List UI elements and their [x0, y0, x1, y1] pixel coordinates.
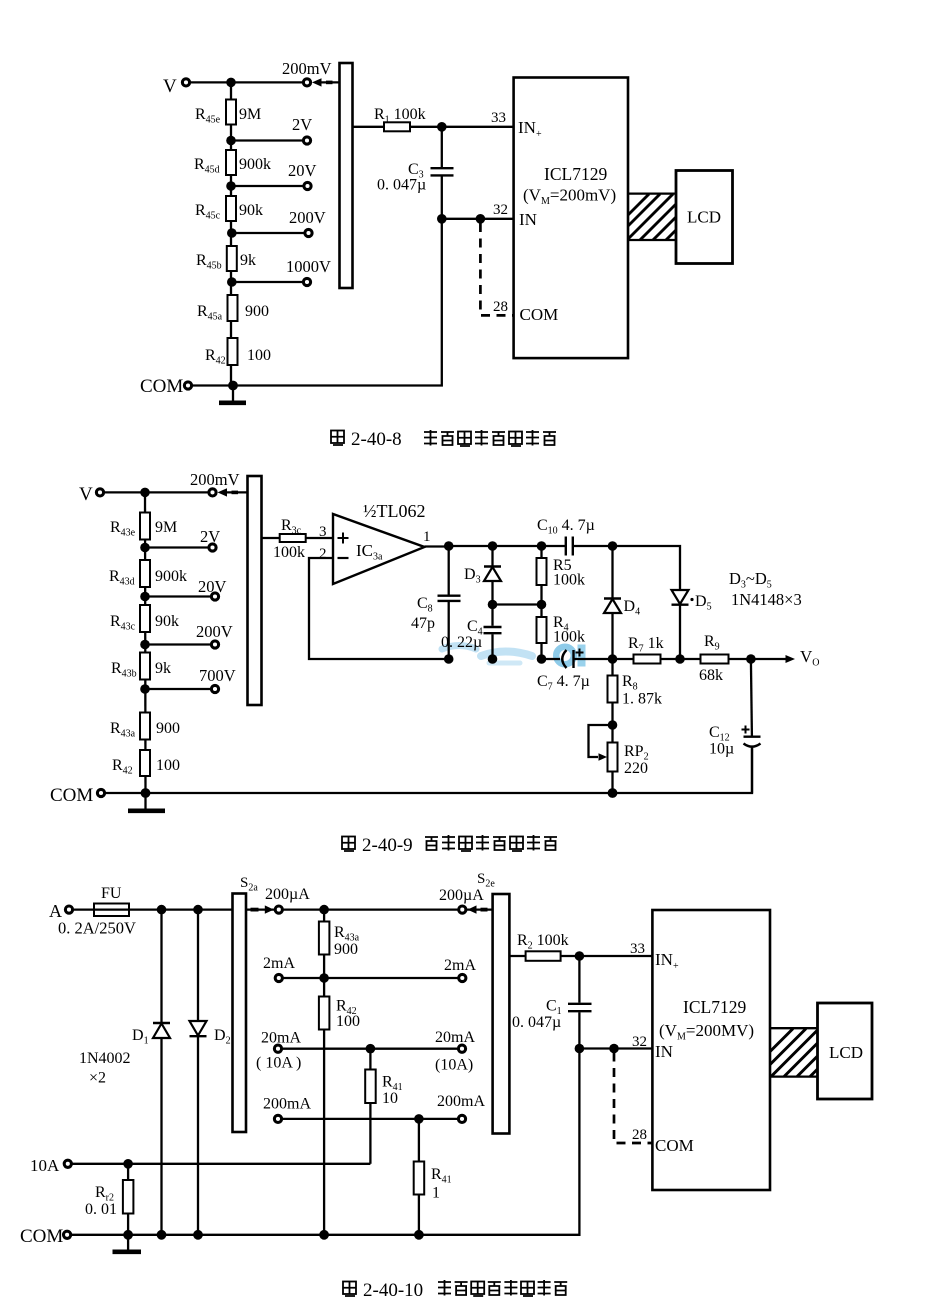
ground — [219, 386, 246, 403]
junction D1 top — [157, 905, 167, 915]
wire 200uA row — [283, 908, 457, 910]
wire 10A row — [72, 1163, 370, 1165]
terminal 2V (AC) — [200, 527, 220, 551]
svg-text:COM: COM — [520, 305, 559, 324]
resistor R5 — [537, 546, 586, 605]
svg-text:28: 28 — [493, 299, 508, 315]
terminal 200V — [289, 208, 326, 237]
terminal 700V — [199, 666, 236, 693]
svg-text:220: 220 — [624, 760, 648, 777]
terminal 2mA left — [275, 974, 282, 981]
terminal 1000V — [286, 257, 331, 286]
svg-text:ICL7129: ICL7129 — [683, 997, 746, 1017]
resistor R45a — [197, 295, 269, 323]
junction D3 top — [488, 541, 498, 551]
svg-text:D3~D5: D3~D5 — [729, 569, 772, 591]
svg-text:200mA: 200mA — [263, 1096, 311, 1113]
svg-text:200µA: 200µA — [439, 887, 484, 904]
junction R41-1 top — [414, 1114, 424, 1124]
ground (DC current) — [113, 1235, 142, 1252]
LCD display (bottom) — [818, 1003, 873, 1099]
svg-text:28: 28 — [632, 1127, 647, 1143]
switch S2e bar — [477, 871, 509, 1134]
wire switch wiper arrow to S2 — [218, 488, 248, 496]
wire 2V tap — [231, 139, 302, 141]
svg-text:20V: 20V — [288, 161, 317, 180]
svg-text:3: 3 — [319, 524, 327, 540]
op-amp IC3a 1/2 TL062 — [333, 501, 426, 584]
capacitor C7 polarized — [537, 649, 590, 693]
svg-text:10µ: 10µ — [709, 741, 734, 758]
resistor R45b — [196, 246, 256, 272]
junction Vo node — [746, 654, 756, 664]
resistor R1 — [374, 106, 426, 131]
label D3~D5 1N4148x3 — [729, 569, 802, 609]
junction R5 bottom — [537, 600, 547, 610]
junction 2mA node — [319, 973, 329, 983]
resistor R45c — [195, 196, 263, 222]
junction D2 top — [193, 905, 203, 915]
svg-text:200mV: 200mV — [190, 470, 240, 489]
svg-text:COM: COM — [20, 1226, 63, 1247]
diode D4 — [604, 546, 640, 659]
resistor R43a — [110, 713, 180, 740]
hatched LCD bus connection (IC2) — [743, 1028, 858, 1078]
wire dashed IN to COM pin — [480, 223, 513, 315]
svg-text:2mA: 2mA — [444, 957, 476, 974]
wire D3 to R5 mid node — [493, 603, 542, 605]
wire IN node — [442, 218, 514, 220]
svg-text:V: V — [79, 484, 93, 505]
junction op output — [444, 541, 454, 551]
svg-text:ICL7129: ICL7129 — [544, 164, 607, 184]
resistor R4 — [537, 605, 586, 660]
potentiometer RP2 — [589, 725, 649, 793]
junction COM D2 — [193, 1230, 203, 1240]
wire 20mA row — [283, 1048, 458, 1050]
wire COM rail (DC current) — [72, 1049, 580, 1235]
junction V node — [226, 78, 236, 88]
junction D4 bottom — [608, 654, 618, 664]
watermark blue marks — [442, 645, 586, 667]
capacitor C8 — [411, 546, 461, 659]
node 20mA left label — [256, 1030, 301, 1072]
terminal A — [49, 901, 73, 921]
wire 200V tap (AC) — [145, 643, 210, 645]
resistor R42 — [205, 338, 271, 367]
junction C4 bottom rail — [488, 654, 498, 664]
svg-text:1: 1 — [432, 1185, 440, 1202]
junction COM R41b — [414, 1230, 424, 1240]
svg-text:×2: ×2 — [89, 1070, 106, 1087]
svg-text:900k: 900k — [155, 568, 187, 585]
node Vo output arrow — [786, 647, 820, 669]
junction after C10 — [608, 541, 618, 551]
svg-text:100: 100 — [156, 757, 180, 774]
wire S2e output to IN+ (R2 row) — [509, 955, 652, 957]
junction COM node — [228, 381, 238, 391]
resistor R43e — [110, 513, 177, 540]
terminal COM (AC) — [50, 785, 105, 806]
svg-text:700V: 700V — [199, 666, 236, 685]
svg-text:100k: 100k — [553, 629, 585, 646]
svg-text:LCD: LCD — [829, 1043, 863, 1062]
wire 20V tap — [231, 185, 303, 187]
resistor R9 — [699, 633, 729, 684]
resistor Rr2 (0.01) — [85, 1164, 133, 1235]
switch S1 range selector bar — [340, 63, 353, 288]
wire A rail to S2a — [129, 908, 233, 910]
svg-text:0. 2A/250V: 0. 2A/250V — [58, 919, 136, 938]
resistor R42 (AC) — [112, 750, 180, 777]
svg-text:68k: 68k — [699, 667, 723, 684]
wire dashed IN to COM pin (IC2) — [614, 1053, 652, 1144]
wire 200V tap — [232, 232, 304, 234]
svg-text:1N4002: 1N4002 — [79, 1050, 131, 1067]
junction 2V node — [226, 136, 236, 146]
terminal 200uA right — [459, 906, 466, 913]
terminal 200mA left — [274, 1115, 281, 1122]
junction R2 C1 — [575, 951, 585, 961]
svg-text:C10 4. 7µ: C10 4. 7µ — [537, 517, 595, 537]
ground (AC) — [128, 793, 165, 811]
svg-text:9M: 9M — [155, 519, 177, 536]
svg-text:20mA: 20mA — [435, 1029, 475, 1046]
capacitor C10 — [537, 517, 595, 556]
junction 200V node (AC) — [140, 640, 150, 650]
wire rail C7 to Vo — [574, 658, 791, 660]
terminal 20mA right — [458, 1045, 465, 1052]
svg-text:9k: 9k — [240, 252, 256, 269]
svg-text:2-40-9: 2-40-9 — [362, 835, 413, 856]
terminal 200mA right — [458, 1115, 465, 1122]
svg-text:(VM=200MV): (VM=200MV) — [659, 1021, 754, 1043]
resistor R41b (1) — [414, 1119, 452, 1235]
svg-text:R2 100k: R2 100k — [517, 932, 569, 952]
junction 700V node — [140, 684, 150, 694]
svg-text:100: 100 — [247, 347, 271, 364]
junction 1000V node — [227, 277, 237, 287]
switch S2a bar — [233, 875, 259, 1132]
junction D3 bottom — [488, 600, 498, 610]
switch S2 range selector bar — [248, 476, 262, 705]
junction R4 bottom rail — [537, 654, 547, 664]
svg-text:2V: 2V — [292, 115, 312, 134]
svg-text:47p: 47p — [411, 615, 435, 632]
wire wiper arrow into S2e — [467, 905, 493, 913]
svg-text:200mV: 200mV — [282, 59, 332, 78]
LCD display — [676, 171, 733, 264]
junction C1 bottom — [575, 1044, 585, 1054]
terminal 200V (AC) — [196, 622, 233, 648]
wire 1000V tap — [232, 281, 303, 283]
resistor R45e — [195, 100, 261, 126]
junction COM Rr2 — [123, 1230, 133, 1240]
svg-text:COM: COM — [655, 1136, 694, 1155]
junction R8 RP2 — [608, 720, 618, 730]
resistor R3c — [273, 517, 306, 561]
caption figure 2-40-8 — [331, 429, 556, 450]
wire divider chain vertical (AC) — [144, 492, 147, 793]
junction V node — [140, 488, 150, 498]
svg-text:1000V: 1000V — [286, 257, 331, 276]
svg-text:100: 100 — [336, 1013, 360, 1030]
wire V to 200mV terminal — [105, 491, 208, 493]
junction R5 top — [537, 541, 547, 551]
svg-text:FU: FU — [101, 885, 122, 902]
wire switch wiper arrow to S1 — [312, 78, 340, 86]
svg-text:V: V — [163, 76, 177, 97]
svg-text:2-40-10: 2-40-10 — [363, 1280, 423, 1301]
svg-text:2: 2 — [319, 546, 327, 562]
wire S2a wiper arrow to 200uA terminal — [246, 905, 274, 913]
junction COM node (AC) — [141, 788, 151, 798]
svg-text:90k: 90k — [155, 613, 179, 630]
svg-text:1N4148×3: 1N4148×3 — [731, 590, 802, 609]
resistor R43a (900) — [319, 922, 360, 959]
svg-text:COM: COM — [50, 785, 93, 806]
junction Rr2 top — [123, 1159, 133, 1169]
svg-text:2mA: 2mA — [263, 955, 295, 972]
fuse FU 0.2A/250V — [58, 885, 136, 938]
junction C8 bottom rail — [444, 654, 454, 664]
svg-text:0. 047µ: 0. 047µ — [512, 1014, 561, 1031]
svg-text:32: 32 — [493, 202, 508, 218]
svg-text:9k: 9k — [155, 660, 171, 677]
svg-text:2-40-8: 2-40-8 — [351, 429, 402, 450]
svg-text:33: 33 — [491, 110, 506, 126]
diode D2 — [190, 910, 231, 1235]
svg-text:0. 01: 0. 01 — [85, 1201, 117, 1218]
wire COM rail (AC) — [106, 747, 752, 794]
terminal 20V — [288, 161, 317, 190]
svg-text:0. 047µ: 0. 047µ — [377, 177, 426, 194]
terminal COM — [140, 376, 192, 397]
diode D5 — [672, 590, 712, 659]
svg-text:10A: 10A — [30, 1156, 60, 1175]
terminal 20V (AC) — [198, 577, 227, 600]
junction 2V node (AC) — [140, 543, 150, 553]
junction 20V node (AC) — [140, 592, 150, 602]
resistor R41 (10) — [365, 1049, 402, 1164]
wire S1 output to IN+ — [353, 126, 514, 128]
svg-text:100k: 100k — [553, 572, 585, 589]
resistor R7 — [628, 635, 664, 664]
svg-text:COM: COM — [140, 376, 183, 397]
wire V to 200mV terminal — [191, 81, 303, 83]
svg-text:200V: 200V — [289, 208, 326, 227]
junction D5 bottom — [675, 654, 685, 664]
svg-text:10: 10 — [382, 1090, 398, 1107]
terminal 200mV — [209, 489, 216, 496]
junction 200V node — [227, 228, 237, 238]
wire 20V tap (AC) — [145, 595, 210, 597]
hatched LCD bus connection — [601, 194, 712, 242]
svg-text:9M: 9M — [239, 106, 261, 123]
terminal 2V — [292, 115, 312, 144]
svg-text:100k: 100k — [273, 544, 305, 561]
junction 20V node — [226, 181, 236, 191]
svg-text:1: 1 — [423, 529, 431, 545]
svg-text:33: 33 — [630, 941, 645, 957]
junction IN node left — [437, 214, 447, 224]
resistor R43d — [109, 560, 187, 588]
wire top rail to C10 — [449, 545, 566, 547]
junction RP2 bottom — [608, 788, 618, 798]
svg-text:900: 900 — [156, 720, 180, 737]
wire S2 output to op-amp — [262, 537, 334, 539]
resistor R43c — [110, 605, 179, 633]
resistor R8 — [608, 659, 663, 725]
wire divider chain vertical — [230, 82, 232, 385]
wire inverting feedback — [309, 558, 449, 659]
svg-text:LCD: LCD — [687, 208, 721, 227]
diode D1 — [132, 910, 170, 1235]
svg-text:R1 100k: R1 100k — [374, 106, 426, 126]
terminal 200uA left — [275, 906, 282, 913]
svg-text:½TL062: ½TL062 — [363, 501, 426, 521]
wire op-amp output — [425, 545, 449, 547]
terminal 20mA left — [274, 1045, 281, 1052]
op IC U2 ICL7129 — [652, 910, 770, 1190]
svg-text:32: 32 — [632, 1034, 647, 1050]
svg-text:900: 900 — [245, 303, 269, 320]
junction COM D1 — [157, 1230, 167, 1240]
svg-text:IN: IN — [655, 1042, 673, 1061]
wire shunt chain vertical — [323, 910, 325, 1235]
capacitor C3 — [377, 127, 454, 219]
svg-text:( 10A ): ( 10A ) — [256, 1055, 301, 1072]
terminal V (AC) — [79, 484, 104, 505]
wire COM rail — [192, 219, 442, 386]
svg-text:200V: 200V — [196, 622, 233, 641]
svg-text:900k: 900k — [239, 156, 271, 173]
svg-text:(10A): (10A) — [435, 1057, 473, 1074]
wire 700V tap — [145, 688, 210, 690]
terminal V — [163, 76, 190, 97]
diode D3 — [464, 546, 501, 605]
junction COM chain — [319, 1230, 329, 1240]
terminal 200mV — [303, 79, 310, 86]
resistor R2 — [517, 932, 569, 961]
wire IN pin row (IC2) — [579, 1047, 652, 1049]
junction IN+ node — [437, 122, 447, 132]
caption figure 2-40-10 — [343, 1280, 567, 1301]
capacitor C4 — [441, 605, 502, 660]
junction chain top — [319, 905, 329, 915]
op IC U1 ICL7129 — [514, 78, 628, 359]
resistor R43b — [111, 653, 171, 680]
terminal 2mA right — [459, 974, 466, 981]
node 20mA right label — [435, 1029, 475, 1074]
capacitor C12 polarized — [709, 659, 761, 793]
capacitor C1 — [512, 956, 592, 1049]
wire rail to C7 — [542, 658, 561, 660]
svg-text:(VM=200mV): (VM=200mV) — [523, 186, 616, 208]
wire 2mA row — [283, 977, 457, 979]
junction IN node dashed branch — [476, 214, 486, 224]
terminal COM (DC current) — [20, 1226, 71, 1247]
wire 200mA row — [283, 1118, 458, 1120]
svg-text:C7 4. 7µ: C7 4. 7µ — [537, 673, 590, 693]
svg-text:90k: 90k — [239, 202, 263, 219]
svg-text:200µA: 200µA — [265, 886, 310, 903]
terminal 10A — [30, 1156, 71, 1175]
junction R41-10 top — [366, 1044, 376, 1054]
svg-text:200mA: 200mA — [437, 1093, 485, 1110]
svg-text:1. 87k: 1. 87k — [622, 691, 662, 708]
svg-text:900: 900 — [334, 941, 358, 958]
label 1N4002 x2 — [79, 1050, 131, 1087]
svg-text:20mA: 20mA — [261, 1030, 301, 1047]
wire 2V tap (AC) — [145, 546, 208, 548]
caption figure 2-40-9 — [342, 835, 557, 856]
resistor R42 (100) — [319, 997, 360, 1031]
wire top rail C10 to D5 branch — [573, 546, 680, 590]
junction dashed branch (IC2) — [609, 1044, 619, 1054]
svg-text:IN: IN — [519, 210, 537, 229]
resistor R45d — [194, 150, 271, 176]
svg-text:R7 1k: R7 1k — [628, 635, 664, 655]
